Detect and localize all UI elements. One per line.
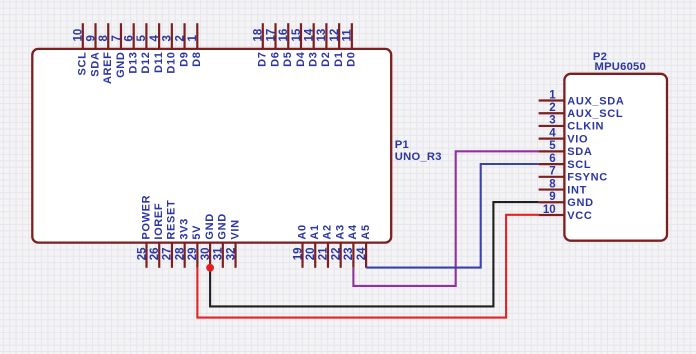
svg-text:5V: 5V (191, 225, 203, 240)
svg-text:4: 4 (549, 127, 556, 139)
svg-text:VCC: VCC (567, 210, 592, 222)
svg-text:MPU6050: MPU6050 (595, 61, 647, 73)
svg-text:6: 6 (123, 35, 135, 41)
svg-text:10: 10 (543, 204, 556, 216)
svg-text:GND: GND (115, 52, 127, 78)
svg-text:2: 2 (174, 35, 186, 41)
svg-text:D1: D1 (333, 52, 345, 67)
svg-text:21: 21 (318, 247, 330, 260)
svg-text:D2: D2 (320, 52, 332, 67)
svg-text:5: 5 (549, 140, 556, 152)
svg-text:1: 1 (549, 89, 556, 101)
svg-text:A5: A5 (360, 224, 372, 239)
svg-text:3V3: 3V3 (178, 218, 190, 240)
svg-text:3: 3 (162, 35, 174, 41)
svg-text:3: 3 (549, 115, 555, 127)
svg-text:D12: D12 (140, 52, 152, 74)
svg-text:2: 2 (549, 102, 555, 114)
svg-text:D6: D6 (269, 52, 281, 67)
svg-text:19: 19 (292, 248, 304, 261)
svg-text:1: 1 (187, 35, 199, 42)
svg-text:D10: D10 (166, 52, 178, 74)
svg-text:CLKIN: CLKIN (567, 121, 604, 133)
svg-text:6: 6 (549, 153, 555, 165)
svg-text:P1: P1 (395, 139, 409, 151)
svg-text:SDA: SDA (567, 146, 592, 158)
svg-text:SCL: SCL (567, 159, 591, 171)
svg-text:14: 14 (303, 28, 315, 41)
svg-text:7: 7 (549, 166, 555, 178)
svg-text:29: 29 (187, 248, 199, 261)
svg-text:28: 28 (174, 247, 186, 260)
svg-text:A4: A4 (347, 224, 359, 240)
svg-text:AUX_SDA: AUX_SDA (567, 95, 624, 107)
svg-text:A3: A3 (334, 224, 346, 239)
svg-text:VIN: VIN (229, 219, 241, 239)
svg-text:GND: GND (567, 197, 593, 209)
svg-text:18: 18 (253, 28, 265, 41)
svg-text:UNO_R3: UNO_R3 (395, 151, 442, 163)
svg-text:SCL: SCL (77, 52, 89, 76)
svg-text:RESET: RESET (166, 200, 178, 240)
svg-text:25: 25 (136, 247, 148, 260)
svg-text:VIO: VIO (567, 133, 588, 145)
svg-text:17: 17 (265, 29, 277, 42)
svg-text:AREF: AREF (102, 52, 114, 85)
svg-text:D0: D0 (346, 52, 358, 67)
svg-text:11: 11 (342, 29, 354, 42)
svg-text:FSYNC: FSYNC (567, 172, 608, 184)
svg-text:23: 23 (343, 248, 355, 261)
svg-text:32: 32 (225, 248, 237, 261)
svg-text:27: 27 (162, 248, 174, 261)
svg-text:D4: D4 (295, 51, 307, 67)
svg-text:30: 30 (200, 248, 212, 261)
svg-text:AUX_SCL: AUX_SCL (567, 108, 623, 120)
svg-text:22: 22 (330, 248, 342, 261)
svg-text:IOREF: IOREF (153, 203, 165, 240)
svg-text:10: 10 (73, 29, 85, 42)
svg-text:31: 31 (213, 247, 225, 260)
svg-text:D8: D8 (191, 52, 203, 67)
svg-text:8: 8 (98, 35, 110, 42)
svg-text:26: 26 (149, 248, 161, 261)
svg-text:INT: INT (567, 184, 587, 196)
svg-text:5: 5 (136, 35, 148, 42)
svg-text:8: 8 (549, 178, 556, 190)
svg-text:D3: D3 (307, 52, 319, 67)
svg-text:A2: A2 (322, 224, 334, 239)
svg-text:13: 13 (316, 29, 328, 42)
svg-text:A0: A0 (296, 224, 308, 239)
svg-text:9: 9 (549, 191, 555, 203)
svg-text:7: 7 (111, 35, 123, 41)
svg-text:D9: D9 (178, 52, 190, 67)
svg-text:D7: D7 (257, 52, 269, 67)
svg-text:D5: D5 (282, 52, 294, 67)
svg-text:16: 16 (278, 29, 290, 42)
svg-text:A1: A1 (309, 224, 321, 239)
svg-text:4: 4 (149, 35, 161, 42)
svg-text:GND: GND (204, 213, 216, 239)
svg-text:9: 9 (85, 35, 97, 41)
svg-text:24: 24 (356, 247, 368, 260)
svg-text:20: 20 (305, 248, 317, 261)
svg-text:D11: D11 (153, 52, 165, 74)
svg-text:GND: GND (217, 213, 229, 239)
svg-text:POWER: POWER (140, 195, 152, 240)
svg-text:15: 15 (291, 28, 303, 41)
svg-text:12: 12 (329, 29, 341, 42)
svg-text:D13: D13 (127, 52, 139, 74)
svg-text:SDA: SDA (89, 52, 101, 77)
